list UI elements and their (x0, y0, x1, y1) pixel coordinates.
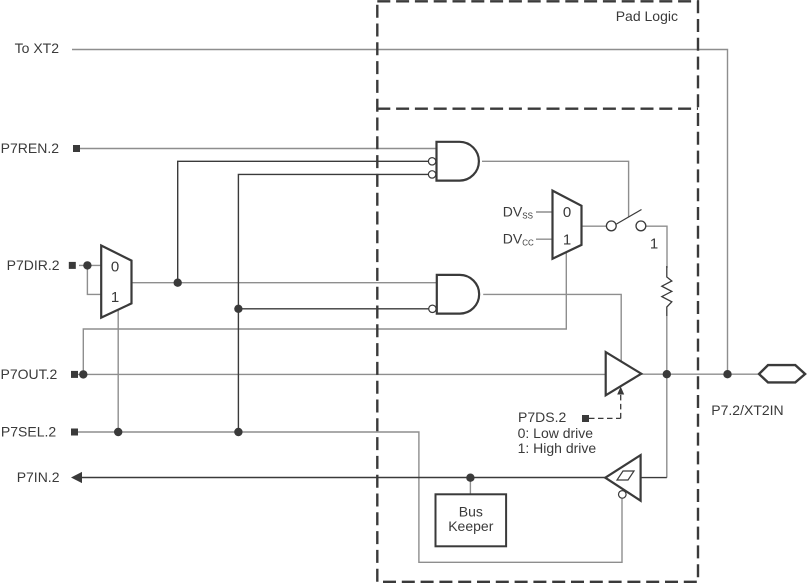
svg-text:P7OUT.2: P7OUT.2 (0, 366, 57, 382)
P7DS.2 dashed control (589, 417, 621, 419)
arrow P7IN.2 (71, 472, 82, 483)
terminal square P7DS.2 (582, 415, 589, 422)
terminal square P7SEL.2 (71, 429, 78, 436)
switch contact right (636, 221, 646, 231)
terminal square P7DIR.2 (69, 262, 76, 269)
svg-text:To XT2: To XT2 (15, 40, 60, 56)
nand gate U1 (437, 142, 479, 181)
svg-text:Pad Logic: Pad Logic (616, 8, 678, 24)
junction dot resistor to pad (663, 370, 671, 378)
schmitt hysteresis symbol (617, 471, 634, 480)
svg-text:P7DIR.2: P7DIR.2 (7, 257, 60, 273)
dashed box Pad Logic (377, 1, 698, 582)
wire schmitt output to P7IN.2 (82, 477, 606, 479)
svg-text:0: 0 (111, 259, 119, 276)
wire P7OUT.2 branch to mux U4 select (83, 250, 566, 374)
pad hexagon P7.2/XT2IN (759, 365, 805, 382)
and gate U2 (437, 275, 479, 314)
mux U3 P7DIR (101, 246, 131, 318)
junction dot bus keeper (466, 474, 474, 482)
svg-text:P7REN.2: P7REN.2 (1, 140, 60, 156)
junction dot P7OUT branch (79, 370, 87, 378)
svg-text:1: High drive: 1: High drive (518, 440, 597, 456)
mux U4 DVss/DVcc (553, 191, 582, 259)
wire U1 output to switch control (482, 161, 629, 217)
junction dot mux out / U1 (174, 279, 182, 287)
wire To XT2 net (72, 50, 728, 375)
svg-text:1: 1 (650, 236, 658, 253)
wire AND U2 output to driver enable (483, 294, 621, 362)
junction dot To XT2 at pad (723, 370, 731, 378)
terminal square P7OUT.2 (71, 371, 78, 378)
svg-text:1: 1 (111, 289, 119, 306)
wire P7SEL node to U1 and U2 inverted inputs (238, 174, 428, 432)
svg-text:P7IN.2: P7IN.2 (17, 469, 60, 485)
wire P7SEL.2 to mux U3 select (117, 309, 119, 432)
switch contact left (606, 221, 616, 231)
driver buffer (606, 352, 642, 395)
junction dot P7SEL vertical (234, 428, 242, 436)
wire resistor R1 to pad node (666, 316, 668, 374)
wire P7DIR.2 to mux U3 inputs 0 and 1 (79, 265, 102, 294)
wire DVss stub (536, 211, 553, 213)
svg-text:1: 1 (563, 232, 571, 249)
U1 input bubble bottom (428, 171, 435, 178)
dashed divider (377, 107, 698, 109)
wire P7DIR node to U1 inverted input (178, 161, 429, 282)
wire mux U4 output to switch (582, 225, 607, 227)
switch lever (617, 210, 642, 225)
resistor R1 (662, 266, 672, 316)
wire pad node to schmitt input (666, 374, 668, 477)
U2 input bubble (429, 305, 436, 312)
wire DVcc stub (536, 238, 553, 240)
wire P7REN.2 to NAND U1 input (80, 148, 437, 150)
U1 input bubble top (428, 158, 435, 165)
junction dot P7DIR branch (83, 261, 91, 269)
svg-text:Keeper: Keeper (448, 518, 493, 534)
svg-text:P7.2/XT2IN: P7.2/XT2IN (711, 402, 783, 418)
P7DS.2 arrow (617, 387, 624, 395)
svg-text:0: Low drive: 0: Low drive (518, 425, 594, 441)
schmitt enable bubble (619, 491, 627, 499)
wire mux U3 output to AND U2 input (132, 282, 438, 284)
terminal square P7REN.2 (73, 145, 80, 152)
wire driver output to pad (641, 373, 758, 375)
junction dot P7SEL mux select (114, 428, 122, 436)
junction dot SEL vertical / U2 (234, 305, 242, 313)
svg-text:P7SEL.2: P7SEL.2 (1, 424, 56, 440)
schmitt trigger input buffer (605, 455, 640, 501)
svg-text:0: 0 (563, 204, 571, 221)
svg-text:P7DS.2: P7DS.2 (518, 409, 566, 425)
wire bus keeper stub (469, 478, 471, 495)
wire P7SEL.2 to schmitt enable bubble (78, 432, 622, 562)
wire P7OUT.2 to driver input (78, 373, 606, 375)
wire switch to resistor R1 (646, 226, 667, 268)
bus keeper box (436, 494, 507, 546)
